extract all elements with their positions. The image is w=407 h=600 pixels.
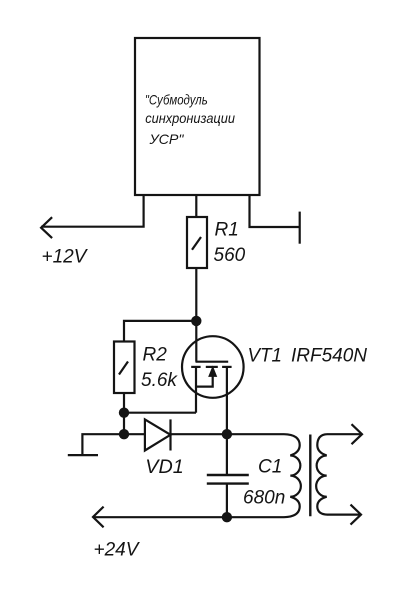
- svg-text:R2: R2: [143, 345, 168, 366]
- svg-text:+24V: +24V: [94, 540, 141, 561]
- svg-text:синхронизации: синхронизации: [145, 110, 235, 126]
- secondary top lead wire: [327, 433, 362, 435]
- wire submodule left pin to +12V arrow: [41, 195, 144, 227]
- VT1 drain lead: [226, 367, 228, 434]
- secondary bottom lead wire: [327, 513, 361, 515]
- resistor R2: [114, 342, 135, 394]
- wire R2 bottom lead: [123, 393, 125, 413]
- transistor VT1 body circle: [182, 336, 244, 398]
- wire gate lead into VT1: [195, 321, 197, 362]
- wire submodule center pin to R1: [195, 195, 197, 217]
- node gate junction: [191, 316, 201, 326]
- transformer T1 secondary winding: [316, 434, 327, 514]
- svg-text:R1: R1: [215, 220, 239, 241]
- VT1 channel dashes: [191, 366, 231, 368]
- resistor R1: [187, 217, 207, 268]
- wire diode cathode to drain node: [171, 433, 227, 435]
- diode VD1: [145, 419, 171, 450]
- +12V supply arrowhead: [41, 217, 52, 238]
- VT1 substrate arrow: [196, 367, 217, 387]
- capacitor C1: [207, 434, 249, 517]
- terminal bar right pin: [299, 212, 301, 244]
- wire source node horizontal: [124, 412, 196, 414]
- node ground rail junction: [119, 429, 129, 439]
- wire R2 node down to rail: [123, 413, 125, 435]
- transformer T1 primary winding: [284, 434, 301, 517]
- node drain junction: [222, 429, 232, 439]
- svg-text:VT1: VT1: [248, 346, 283, 367]
- transformer core: [309, 435, 311, 517]
- VT1 source lead: [195, 367, 197, 413]
- bottom rail wire to +24V arrow: [93, 516, 284, 518]
- svg-text:УСР": УСР": [148, 131, 184, 147]
- secondary top arrowhead: [352, 424, 363, 444]
- node R2 bottom junction: [119, 408, 129, 418]
- VT1 gate bar: [196, 361, 229, 363]
- wire R1 bottom to gate node: [195, 268, 197, 321]
- submodule box U1: [135, 38, 260, 195]
- svg-text:VD1: VD1: [145, 457, 184, 478]
- svg-text:560: 560: [214, 245, 246, 266]
- +24V supply arrowhead: [93, 507, 104, 528]
- svg-text:"Субмодуль: "Субмодуль: [145, 92, 208, 108]
- wire gate node to R2 top: [124, 321, 196, 342]
- svg-text:5.6k: 5.6k: [141, 370, 178, 391]
- svg-text:+12V: +12V: [42, 247, 89, 268]
- ground symbol: [68, 454, 98, 456]
- svg-text:C1: C1: [258, 457, 282, 478]
- wire drain node to transformer primary: [227, 433, 284, 435]
- node C1 bottom junction: [222, 512, 232, 522]
- svg-text:680n: 680n: [243, 488, 285, 509]
- svg-text:IRF540N: IRF540N: [291, 346, 367, 367]
- wire rail left to ground: [82, 434, 124, 455]
- wire submodule right pin: [250, 195, 300, 227]
- secondary bottom arrowhead: [351, 505, 362, 525]
- wire rail node to diode anode: [124, 433, 145, 435]
- submodule box label text: [145, 92, 235, 148]
